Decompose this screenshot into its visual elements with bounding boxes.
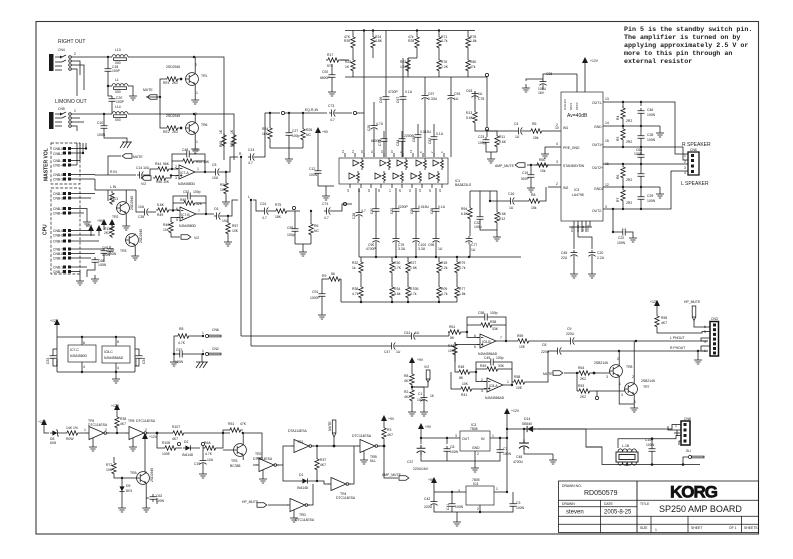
svg-text:TR8: TR8	[626, 365, 633, 369]
jack J-L contacts	[55, 112, 66, 126]
svg-text:CNB-6: CNB-6	[53, 234, 63, 238]
svg-text:KORG: KORG	[670, 483, 718, 502]
svg-text:2SB2146: 2SB2146	[594, 361, 608, 365]
feedback R45	[182, 201, 196, 205]
svg-text:DATE: DATE	[604, 502, 614, 506]
svg-text:C22: C22	[618, 236, 624, 240]
svg-text:SP250 AMP BOARD: SP250 AMP BOARD	[659, 504, 742, 514]
svg-text:C80: C80	[370, 208, 374, 214]
second path with R108	[157, 433, 163, 448]
svg-text:5.6K: 5.6K	[499, 212, 507, 216]
svg-text:C91: C91	[312, 290, 318, 294]
svg-text:TR5: TR5	[128, 419, 135, 423]
resistor R11	[495, 134, 499, 148]
resistor R49	[156, 208, 170, 212]
svg-text:C8: C8	[450, 445, 454, 449]
svg-text:V/2: V/2	[194, 236, 199, 240]
svg-text:2K2: 2K2	[172, 81, 178, 85]
svg-text:NJM4556AD: NJM4556AD	[104, 356, 124, 360]
resistor R79	[455, 260, 459, 274]
svg-text:R6A: R6A	[204, 441, 211, 445]
svg-text:6800P: 6800P	[320, 76, 331, 80]
svg-text:8K: 8K	[459, 376, 464, 380]
svg-text:2SD2945: 2SD2945	[150, 468, 154, 482]
resistor R30	[390, 260, 394, 274]
capacitor C68	[92, 257, 99, 265]
svg-text:IC7-C: IC7-C	[70, 348, 79, 352]
svg-text:000: 000	[115, 90, 121, 94]
svg-text:CNB-8: CNB-8	[53, 252, 63, 256]
svg-text:CNB-6: CNB-6	[53, 173, 63, 177]
wire R riser	[241, 113, 280, 346]
svg-text:C46: C46	[647, 108, 653, 112]
svg-text:3: 3	[621, 393, 623, 397]
cap C54	[136, 353, 143, 361]
svg-text:2R2: 2R2	[626, 119, 632, 123]
long wire L ch	[241, 335, 449, 337]
svg-text:2.2K: 2.2K	[441, 65, 449, 69]
svg-text:2: 2	[175, 165, 177, 169]
svg-text:1.8K: 1.8K	[400, 65, 408, 69]
cap C67	[400, 94, 407, 102]
cap C100	[413, 236, 420, 244]
svg-text:100N: 100N	[646, 443, 655, 447]
plug CN2	[205, 352, 221, 355]
cap C32	[477, 214, 484, 222]
svg-text:GND: GND	[472, 446, 480, 450]
svg-text:OUT2+: OUT2+	[592, 166, 603, 170]
resistor R41	[459, 387, 473, 391]
V/2 flag vert	[412, 382, 428, 387]
IC5 box	[561, 92, 603, 221]
resistor R68 bleed	[222, 133, 226, 147]
svg-text:R40: R40	[163, 223, 169, 227]
svg-text:4: 4	[556, 142, 558, 146]
svg-text:OUT: OUT	[462, 437, 469, 441]
svg-text:1U: 1U	[509, 206, 514, 210]
svg-text:8V3: 8V3	[126, 489, 132, 493]
svg-text:CNB-3: CNB-3	[53, 178, 63, 182]
svg-text:7: 7	[198, 209, 200, 213]
svg-text:+12V: +12V	[38, 420, 47, 424]
svg-text:2: 2	[74, 109, 76, 113]
svg-text:+9V: +9V	[417, 358, 424, 362]
svg-text:OF 1: OF 1	[729, 526, 737, 530]
svg-text:5: 5	[704, 330, 706, 334]
IN2 wire	[541, 187, 561, 201]
svg-text:C93: C93	[454, 92, 460, 96]
svg-text:NJM4580D: NJM4580D	[179, 224, 197, 228]
svg-text:16V: 16V	[538, 91, 545, 95]
svg-text:BA3823LS: BA3823LS	[455, 183, 472, 187]
op-amp IC7-A	[176, 165, 198, 179]
svg-text:C38: C38	[352, 213, 356, 219]
svg-text:CNB-9: CNB-9	[53, 240, 63, 244]
resistor R6a	[529, 129, 543, 133]
svg-text:100N: 100N	[647, 113, 656, 117]
svg-text:10K: 10K	[163, 228, 170, 232]
svg-text:1: 1	[84, 428, 86, 432]
resistor R77	[455, 285, 459, 299]
svg-text:R49: R49	[157, 213, 163, 217]
svg-text:0.1U: 0.1U	[436, 132, 444, 136]
svg-text:R49: R49	[480, 364, 486, 368]
resistor R7	[621, 188, 625, 202]
svg-text:C96: C96	[428, 243, 434, 247]
svg-text:+9V: +9V	[86, 224, 93, 228]
svg-text:R41: R41	[461, 393, 467, 397]
svg-text:100p: 100p	[292, 134, 300, 138]
svg-text:2R2: 2R2	[626, 201, 632, 205]
resistor R37	[315, 457, 319, 471]
cap C8	[555, 348, 563, 355]
svg-text:2SD2945: 2SD2945	[166, 114, 180, 118]
svg-text:4.7: 4.7	[361, 209, 366, 213]
svg-text:1: 1	[196, 140, 198, 144]
svg-text:100N: 100N	[55, 359, 59, 366]
svg-text:4.7k: 4.7k	[441, 292, 448, 296]
svg-text:LA4798: LA4798	[572, 193, 584, 197]
svg-text:4700P: 4700P	[388, 90, 399, 94]
svg-text:2SD2945: 2SD2945	[166, 65, 180, 69]
cap C84	[399, 136, 406, 144]
svg-text:100µ: 100µ	[474, 225, 482, 229]
svg-text:5: 5	[474, 345, 476, 349]
svg-text:DRAWN NO.: DRAWN NO.	[562, 484, 582, 488]
svg-text:C8: C8	[542, 343, 546, 347]
svg-text:4700P: 4700P	[366, 247, 377, 251]
svg-text:CNB-5: CNB-5	[53, 147, 63, 151]
cap C20	[589, 250, 596, 258]
svg-text:MUTE: MUTE	[328, 421, 332, 431]
+9V arrow TRB	[381, 415, 387, 426]
feedback R52	[181, 159, 195, 163]
resistor R75	[274, 209, 288, 213]
svg-text:R75: R75	[275, 203, 281, 207]
resistor R57	[226, 221, 230, 235]
capacitor C5	[213, 169, 221, 176]
capacitor C69	[107, 246, 114, 254]
svg-text:CN2: CN2	[212, 347, 219, 351]
svg-text:56K: 56K	[163, 162, 170, 166]
svg-text:C74: C74	[322, 202, 328, 206]
inductor L13	[112, 55, 128, 61]
cap C38	[356, 210, 363, 218]
svg-text:C88: C88	[430, 208, 434, 214]
svg-text:100E: 100E	[162, 452, 171, 456]
svg-text:4: 4	[684, 171, 686, 175]
svg-text:0.1U: 0.1U	[405, 90, 413, 94]
buffer TR2b	[256, 459, 279, 472]
svg-text:V/2: V/2	[424, 365, 429, 369]
svg-text:D2: D2	[184, 440, 188, 444]
svg-text:+9V: +9V	[322, 130, 329, 134]
svg-text:CNB-3: CNB-3	[53, 197, 63, 201]
zener D9	[119, 484, 124, 494]
svg-text:100p: 100p	[496, 356, 504, 360]
cap C48	[519, 439, 529, 450]
mute flag	[147, 95, 157, 99]
svg-text:NJM4580D: NJM4580D	[178, 182, 196, 186]
wire CN8 pin3 to L16	[618, 436, 681, 449]
svg-text:C86: C86	[410, 208, 414, 214]
svg-text:0.33U: 0.33U	[428, 97, 438, 101]
resistor R110	[110, 224, 114, 238]
svg-text:CN5: CN5	[58, 107, 65, 111]
resistor R23	[371, 35, 375, 49]
svg-text:100p: 100p	[192, 148, 200, 152]
svg-text:100P: 100P	[112, 69, 121, 73]
svg-text:5.6K: 5.6K	[157, 203, 165, 207]
R path to IC8-A	[455, 346, 458, 372]
svg-text:15: 15	[605, 139, 609, 143]
svg-text:AMP_MUTE: AMP_MUTE	[495, 164, 515, 168]
svg-text:4.7: 4.7	[324, 216, 329, 220]
cap C62	[150, 494, 157, 502]
cap C9	[568, 338, 576, 345]
V/2 flag 2	[181, 235, 191, 239]
svg-text:220U: 220U	[424, 505, 433, 509]
svg-text:OUT1+: OUT1+	[592, 143, 603, 147]
svg-text:2: 2	[477, 452, 479, 456]
svg-text:2SD2945: 2SD2945	[139, 229, 143, 243]
svg-text:R6: R6	[616, 175, 620, 179]
resistor R72	[112, 461, 116, 475]
svg-text:GND: GND	[594, 125, 602, 129]
svg-text:C16: C16	[508, 192, 514, 196]
svg-text:4.8K: 4.8K	[375, 39, 383, 43]
cap C2B	[638, 171, 645, 179]
svg-text:C15: C15	[522, 171, 528, 175]
svg-text:1000P: 1000P	[310, 296, 321, 300]
svg-text:CNB-1: CNB-1	[53, 192, 63, 196]
cap C7	[497, 447, 504, 455]
svg-text:C62: C62	[156, 494, 162, 498]
svg-text:6: 6	[176, 207, 178, 211]
svg-text:C9: C9	[567, 327, 571, 331]
svg-text:VCC3: VCC3	[575, 102, 579, 110]
IC1 box	[339, 158, 448, 184]
svg-text:2: 2	[105, 428, 107, 432]
svg-text:10E: 10E	[519, 345, 526, 349]
buffer TR4	[328, 478, 351, 491]
svg-text:+5V: +5V	[428, 478, 435, 482]
svg-text:12: 12	[605, 183, 609, 187]
svg-text:R64: R64	[578, 366, 584, 370]
resistor R71	[437, 35, 441, 49]
resistor R8b	[176, 334, 190, 338]
svg-text:2.2k: 2.2k	[441, 266, 448, 270]
svg-text:+12V: +12V	[149, 435, 158, 439]
svg-text:1.5K: 1.5K	[410, 266, 418, 270]
+12V arrow	[142, 433, 148, 444]
capacitor C13	[248, 154, 256, 161]
svg-text:TR1: TR1	[297, 440, 304, 444]
svg-text:3: 3	[481, 389, 483, 393]
svg-text:4K7: 4K7	[387, 433, 393, 437]
cap C86	[413, 206, 420, 214]
+9V arrow2	[96, 225, 102, 236]
svg-text:C67: C67	[396, 97, 400, 103]
buffer TRD	[287, 499, 310, 512]
svg-text:0.1U: 0.1U	[438, 205, 446, 209]
supply box wires	[57, 330, 135, 375]
resistor R76	[437, 58, 441, 72]
svg-text:R26: R26	[306, 128, 312, 132]
transistor TR7	[624, 383, 637, 396]
long wire R ch	[251, 345, 455, 347]
svg-text:2K2: 2K2	[104, 231, 110, 235]
svg-text:14K 1%: 14K 1%	[66, 426, 78, 430]
svg-text:2: 2	[477, 507, 479, 511]
svg-text:C6: C6	[214, 207, 218, 211]
svg-text:10K: 10K	[220, 188, 227, 192]
svg-text:2: 2	[632, 375, 634, 379]
svg-text:C12: C12	[309, 167, 315, 171]
diode D2	[183, 445, 193, 450]
svg-text:R32: R32	[352, 261, 358, 265]
svg-text:TR2: TR2	[112, 215, 119, 219]
svg-text:4K7: 4K7	[320, 463, 326, 467]
svg-text:100N: 100N	[516, 506, 525, 510]
svg-text:NJM4556AD: NJM4556AD	[485, 396, 505, 400]
svg-text:R8: R8	[531, 193, 535, 197]
svg-text:2: 2	[74, 52, 76, 56]
+12V arrow	[41, 419, 47, 430]
svg-text:C48: C48	[182, 148, 188, 152]
svg-text:100N: 100N	[134, 359, 138, 366]
svg-text:EQ-R-IN: EQ-R-IN	[305, 108, 319, 112]
svg-text:R25: R25	[345, 60, 351, 64]
svg-text:VCC2: VCC2	[586, 225, 590, 232]
svg-text:R.FIL: R.FIL	[570, 225, 574, 232]
svg-text:MUTE: MUTE	[133, 155, 143, 159]
svg-text:TR7: TR7	[643, 385, 650, 389]
svg-text:C78: C78	[478, 97, 484, 101]
svg-text:IN4148: IN4148	[182, 453, 193, 457]
svg-text:STANDBYSW: STANDBYSW	[563, 164, 585, 168]
resistor R80	[466, 58, 470, 72]
svg-text:R108: R108	[162, 441, 170, 445]
chassis ground	[196, 354, 208, 368]
svg-text:C54: C54	[142, 358, 146, 364]
resistor R108	[163, 446, 177, 450]
svg-text:4.7K: 4.7K	[178, 341, 186, 345]
svg-text:100p: 100p	[287, 233, 295, 237]
svg-text:DRAWN: DRAWN	[562, 502, 575, 506]
svg-text:4.7k: 4.7k	[352, 292, 359, 296]
cap C28	[638, 133, 645, 141]
bypass C12	[315, 168, 322, 176]
svg-text:+12V: +12V	[650, 300, 659, 304]
transistor TR2	[116, 202, 129, 215]
svg-text:CN3: CN3	[711, 317, 718, 321]
svg-text:4.7k: 4.7k	[441, 39, 448, 43]
svg-text:1: 1	[202, 331, 204, 335]
svg-text:1U: 1U	[478, 92, 483, 96]
caps row y≈95-108: C66	[383, 94, 390, 102]
svg-text:R15: R15	[441, 261, 447, 265]
svg-text:HP_MUTE: HP_MUTE	[242, 500, 259, 504]
CNB pin rows (cpu)	[53, 192, 71, 274]
svg-text:10E: 10E	[516, 386, 523, 390]
transistor TR6	[185, 122, 198, 135]
cap C63	[472, 91, 479, 99]
svg-text:3: 3	[455, 434, 457, 438]
svg-text:1: 1	[492, 434, 494, 438]
cap C3	[510, 501, 517, 509]
+9V arrow	[409, 357, 415, 368]
svg-text:OUT2-: OUT2-	[592, 209, 602, 213]
svg-text:C47: C47	[384, 350, 390, 354]
feedback C48	[184, 151, 192, 158]
IC1 pin ticks top	[345, 153, 444, 157]
svg-text:R45: R45	[180, 198, 186, 202]
PRE GND pin4	[545, 147, 561, 150]
svg-text:CPU: CPU	[43, 224, 49, 235]
svg-text:R79: R79	[459, 261, 465, 265]
GND2 wire	[603, 187, 660, 190]
+9V arrow preamp	[101, 219, 107, 230]
svg-text:IN1: IN1	[563, 126, 568, 130]
feedback R49b	[485, 367, 499, 371]
svg-text:Pin 5 is the standby switch pi: Pin 5 is the standby switch pin.	[624, 26, 752, 34]
svg-text:C26: C26	[367, 125, 371, 131]
vertical drops into IC1	[357, 31, 451, 158]
ground TR1	[191, 96, 199, 104]
svg-text:10U: 10U	[138, 205, 145, 209]
svg-text:C49: C49	[484, 356, 490, 360]
svg-text:HP_MUTE: HP_MUTE	[684, 300, 701, 304]
resistor R8d	[410, 372, 414, 386]
svg-text:2K2: 2K2	[580, 395, 586, 399]
svg-text:R PHOUT: R PHOUT	[670, 346, 685, 350]
resistor R6	[621, 165, 625, 179]
svg-text:100N: 100N	[647, 138, 656, 142]
svg-text:C1: C1	[418, 392, 422, 396]
svg-text:+12V: +12V	[590, 59, 599, 63]
svg-text:4.7k: 4.7k	[459, 266, 466, 270]
svg-text:C14 10U: C14 10U	[136, 166, 150, 170]
resistor R70	[406, 285, 410, 299]
svg-text:18K: 18K	[262, 132, 269, 136]
svg-text:R24: R24	[262, 127, 268, 131]
resistor R101	[110, 191, 114, 205]
svg-text:C23: C23	[478, 135, 484, 139]
svg-text:47K: 47K	[240, 422, 247, 426]
dashed box CPU	[51, 188, 80, 274]
svg-text:3: 3	[606, 375, 608, 379]
cap C46	[638, 108, 645, 116]
resistor R9	[327, 277, 341, 281]
svg-text:4K7: 4K7	[404, 379, 410, 383]
resistor RE1	[165, 77, 179, 81]
cap C80	[373, 206, 380, 214]
svg-text:7: 7	[500, 336, 502, 340]
svg-text:C4: C4	[514, 122, 518, 126]
plug CN6b	[205, 334, 221, 337]
svg-text:100N: 100N	[102, 253, 111, 257]
resistor R2	[410, 388, 414, 402]
ladder top wire	[359, 256, 521, 258]
cap C8r	[444, 446, 451, 454]
svg-text:4.7K: 4.7K	[394, 266, 402, 270]
svg-text:DTA114ESA: DTA114ESA	[288, 429, 307, 433]
svg-text:R76: R76	[441, 60, 447, 64]
IC4 7805	[466, 486, 494, 505]
svg-text:4.7K: 4.7K	[205, 452, 213, 456]
svg-text:5: 5	[176, 218, 178, 222]
